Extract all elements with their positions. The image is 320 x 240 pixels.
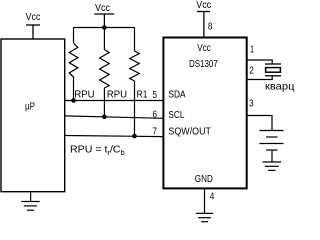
wire SQW/OUT (µP to pin 7) [65,136,163,137]
svg-text:2: 2 [249,66,254,77]
Vcc power symbol above pull-up rail [94,14,114,28]
svg-text:7: 7 [152,126,157,137]
svg-text:SDA: SDA [168,89,185,100]
pin 1 wire (X1 to crystal) [247,60,273,64]
wire SCL (µP to pin 6) [65,116,163,118]
svg-text:кварц: кварц [265,81,295,92]
Vcc power symbol above µP [26,25,40,39]
IC DS1307 box [163,38,246,189]
svg-text:Vcc: Vcc [26,12,41,23]
svg-text:R1: R1 [137,89,148,100]
svg-text:6: 6 [152,109,157,120]
svg-text:3: 3 [249,99,254,110]
svg-text:5: 5 [152,90,157,101]
svg-text:RPU: RPU [74,89,94,100]
svg-text:RPU: RPU [107,89,127,100]
ground (µP) [21,192,39,210]
pin 2 wire (X2 to crystal) [247,76,273,80]
svg-text:RPU = tr/Cb: RPU = tr/Cb [70,144,125,156]
resistor RPU (SDA pull-up) [69,28,78,101]
junction: RPU to SCL wire [102,115,107,120]
wire SDA (µP to pin 5) [65,100,163,102]
resistor RPU (SCL pull-up) [100,28,110,117]
pin 3 wire (Vbat to battery) [247,116,273,131]
battery BT1 (3V lithium) [260,131,284,163]
svg-text:DS1307: DS1307 [189,59,218,70]
microprocessor U1 µP box [1,39,65,192]
svg-text:SCL: SCL [168,110,184,121]
svg-text:Vcc: Vcc [95,3,110,14]
ground (DS1307 GND) [196,213,213,221]
Vcc power symbol at pin 8 [197,12,210,38]
junction: R1 to SQW/OUT wire [132,134,137,139]
resistor R1 (SQW/OUT pull-up) [130,28,140,137]
ground (battery negative) [263,162,281,170]
svg-text:µP: µP [25,101,35,112]
svg-text:4: 4 [210,192,215,203]
pin 4 wire (GND) [204,189,206,213]
svg-text:8: 8 [208,22,213,33]
svg-text:GND: GND [195,174,213,185]
pull-up supply rail wire [74,27,135,29]
svg-text:1: 1 [250,44,254,55]
svg-text:Vcc: Vcc [196,0,211,11]
svg-text:SQW/OUT: SQW/OUT [168,126,211,137]
junction: RPU to SDA wire [71,98,76,103]
junction: Vcc stem to rail [102,25,107,30]
svg-text:Vcc: Vcc [197,43,210,54]
crystal Y1 (quartz) [265,64,281,76]
